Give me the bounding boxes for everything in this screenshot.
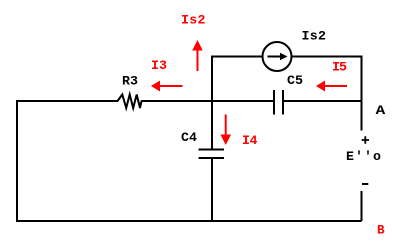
- svg-text:I4: I4: [242, 133, 258, 148]
- svg-text:R3: R3: [122, 74, 138, 89]
- svg-text:I3: I3: [151, 58, 167, 73]
- svg-text:C5: C5: [287, 73, 303, 88]
- svg-text:I5: I5: [332, 60, 347, 75]
- svg-text:Is2: Is2: [302, 29, 327, 44]
- svg-text:B: B: [377, 223, 385, 238]
- svg-text:Is2: Is2: [181, 13, 206, 28]
- svg-text:E''o: E''o: [346, 149, 381, 164]
- svg-text:C4: C4: [181, 130, 197, 145]
- svg-text:A: A: [376, 103, 386, 118]
